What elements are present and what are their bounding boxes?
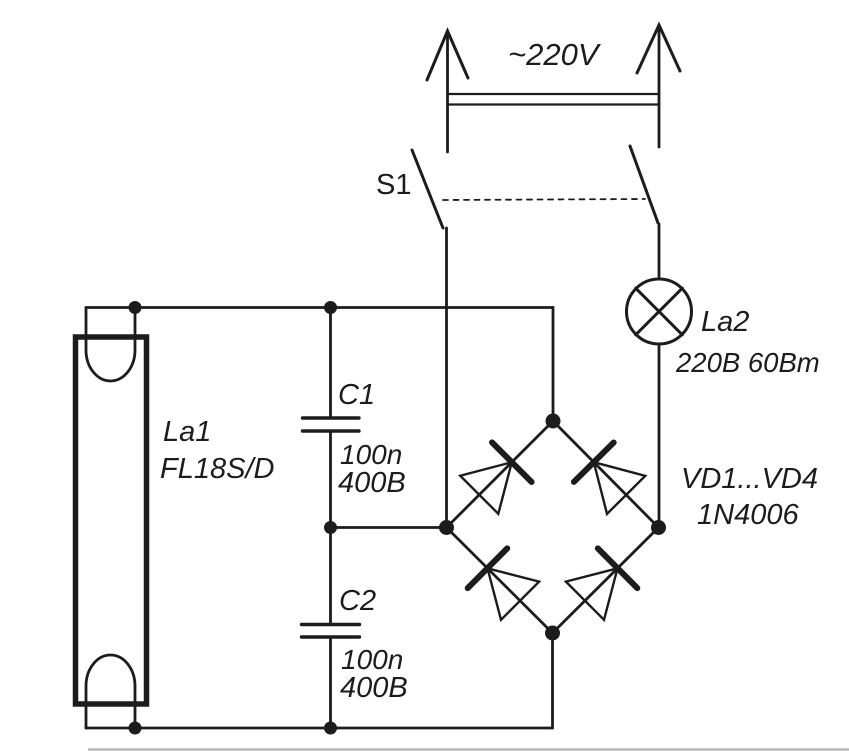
wire: mid rail from C junction to bridge left node: [331, 526, 447, 529]
diode VD4 triangle (bottom-right branch): [566, 568, 618, 620]
node: bridge bottom: [545, 626, 560, 641]
diode VD3 triangle (left-bottom branch): [488, 568, 540, 620]
svg-text:400B: 400B: [338, 467, 406, 499]
svg-text:220B 60Bm: 220B 60Bm: [675, 347, 820, 378]
wire: top rail corner down to bridge top node: [552, 308, 555, 422]
capacitor C1 lower plate: [303, 429, 360, 432]
diode VD1 cathode bar: [492, 442, 532, 482]
switch S1 mechanical link (dashed): [443, 199, 645, 200]
diode VD2 cathode bar: [574, 443, 614, 482]
wire: mains double line upper: [448, 93, 660, 95]
node: C1/C2 mid junction: [324, 521, 337, 534]
svg-text:La1: La1: [163, 416, 211, 448]
svg-text:VD1...VD4: VD1...VD4: [681, 463, 818, 495]
scan artifact line at bottom: [88, 748, 849, 751]
diode VD4 cathode bar: [598, 548, 638, 588]
svg-text:100n: 100n: [340, 439, 402, 470]
svg-text:C2: C2: [339, 585, 376, 617]
switch S1 right blade: [630, 146, 658, 223]
wire: bottom rail: [86, 727, 553, 730]
capacitor C1 bottom lead: [329, 433, 332, 528]
wire: left mains prong vertical: [446, 31, 449, 152]
lamp La2 circle: [627, 279, 692, 344]
capacitor C1 upper plate: [303, 416, 360, 419]
capacitor C2 bottom lead: [329, 639, 332, 729]
svg-text:400B: 400B: [340, 672, 408, 704]
node: C2 bottom junction: [324, 722, 337, 735]
capacitor C1 top lead: [329, 308, 332, 417]
svg-text:S1: S1: [376, 169, 411, 201]
node: bridge top: [546, 414, 561, 429]
diode VD2 triangle (top-right branch): [594, 462, 646, 514]
svg-text:C1: C1: [338, 379, 375, 411]
wire: bridge branch top-right: [553, 421, 659, 528]
wire: left prong arrowhead: [427, 31, 468, 80]
wire: mains double line lower: [448, 103, 660, 105]
capacitor C2 upper plate: [302, 623, 360, 626]
wire: S1 right pole down to lamp La2: [658, 224, 661, 279]
svg-text:FL18S/D: FL18S/D: [160, 453, 274, 485]
diode VD3 cathode bar: [468, 548, 508, 588]
node: La1 bottom junction: [129, 722, 142, 735]
wire: bridge branch left-bottom: [447, 528, 553, 634]
svg-text:La2: La2: [701, 306, 749, 338]
wire: S1 left pole down to bridge left node: [445, 228, 448, 528]
node: La1 top junction: [129, 301, 142, 314]
wire: bridge bottom node down to bottom rail: [551, 633, 554, 728]
svg-text:1N4006: 1N4006: [697, 499, 799, 531]
wire: lamp La2 to bridge right node: [658, 344, 661, 528]
lamp La1 top filament: [86, 308, 135, 381]
wire: top rail: [86, 306, 553, 309]
node: bridge right: [651, 520, 666, 535]
wire: bridge branch left-top: [447, 421, 554, 528]
diode VD1 triangle (left-top branch): [460, 462, 512, 514]
wire: right mains prong vertical: [658, 25, 661, 147]
svg-text:100n: 100n: [341, 644, 403, 675]
node: bridge left: [439, 520, 454, 535]
capacitor C2 top lead: [329, 528, 332, 624]
wire: right prong arrowhead: [637, 25, 680, 73]
switch S1 left blade: [412, 150, 443, 228]
lamp La2 cross: [636, 288, 683, 335]
svg-text:~220V: ~220V: [508, 37, 602, 72]
lamp La1 bottom filament: [86, 655, 135, 728]
capacitor C2 lower plate: [302, 635, 360, 638]
lamp La1 tube body: [76, 337, 147, 704]
wire: bridge branch bottom-right: [553, 528, 659, 634]
node: C1 top junction: [324, 301, 337, 314]
